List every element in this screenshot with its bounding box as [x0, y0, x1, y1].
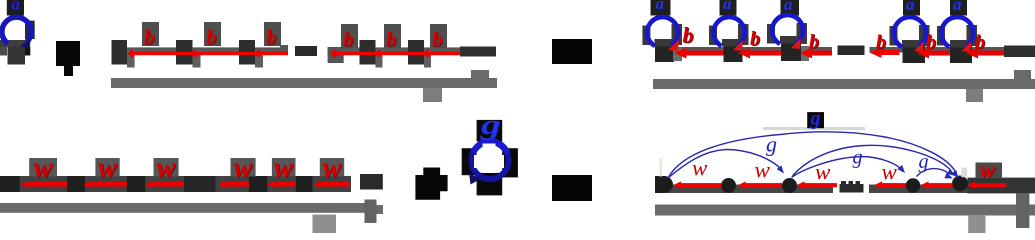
bracket tick left [660, 158, 662, 177]
arrow w6 [314, 181, 324, 188]
unit4 loop arrowhead [914, 41, 924, 52]
w halo 3 [154, 158, 179, 177]
label halo b2 [204, 22, 221, 46]
w halo right [976, 163, 1003, 178]
label halo b5 [384, 24, 401, 48]
node 4 [249, 176, 267, 192]
node 1 [655, 176, 673, 193]
top g label box [807, 112, 824, 128]
svg-text:g: g [919, 151, 929, 173]
svg-text:w: w [882, 160, 898, 185]
unit4 self-loop [894, 17, 926, 47]
node 2 [67, 176, 85, 192]
arrow into unit2 [738, 48, 750, 59]
label halo b4 [341, 24, 358, 48]
arc g node1 to node5 (big) [668, 132, 956, 178]
unit3 node [781, 42, 801, 61]
self-loop arrowhead [20, 39, 31, 49]
arrow into unit5 [966, 48, 978, 59]
node 1 [112, 40, 128, 65]
unit2 right halo [738, 24, 749, 45]
arrow w2 [738, 181, 746, 189]
svg-text:w: w [34, 153, 53, 184]
unit3 self-loop [772, 15, 803, 44]
arrow b4 [328, 47, 344, 63]
arrow into unit3 [800, 48, 812, 59]
unit4 left halo [890, 26, 898, 46]
node 4 [360, 40, 376, 65]
ellipsis blob [184, 176, 216, 192]
svg-text:a: a [906, 0, 915, 14]
right tail rect [967, 178, 1035, 194]
w halo 2 [95, 158, 119, 177]
arrow w2 [84, 181, 94, 188]
extent line bottom-left [0, 203, 372, 213]
unit4 node [903, 45, 926, 63]
g label halo block [477, 120, 503, 142]
arc g node3 to node5 [793, 145, 951, 176]
w halo 6 [320, 158, 344, 177]
svg-text:a: a [784, 0, 793, 14]
chain tail bar [460, 47, 496, 57]
extent line right [653, 79, 1035, 89]
node 3 [782, 178, 797, 193]
unit2 left halo [709, 26, 717, 46]
unit3 node fringe [801, 46, 809, 61]
svg-text:a: a [656, 0, 665, 13]
label halo of loop label a [7, 0, 24, 16]
unit1 loop arrowhead [668, 40, 679, 52]
chain bar segment left [655, 185, 833, 194]
node 5 fringe [424, 50, 431, 68]
unit5 node [950, 45, 972, 63]
left halo block [462, 148, 477, 175]
equals blob row 1 [552, 39, 592, 64]
svg-text:b: b [386, 27, 397, 51]
w halo 1 [29, 158, 57, 177]
unit1 node [655, 45, 674, 62]
unit2 label halo [720, 0, 737, 16]
ellipsis dots [840, 184, 864, 193]
node 1 [0, 176, 20, 192]
node 4 [906, 178, 920, 192]
chain band segment 2 [328, 47, 460, 55]
label halo b1 [142, 22, 159, 46]
svg-text:w: w [274, 153, 293, 184]
arrow w5 [268, 181, 278, 188]
unit5 left halo [937, 26, 945, 46]
arrow b5 [375, 49, 383, 58]
self-loop arrowhead [469, 173, 481, 185]
node q0 [8, 47, 26, 65]
node 5 [296, 176, 313, 192]
arc g node3 to node4 [792, 157, 903, 178]
right halo block [502, 148, 518, 177]
unit3 loop collar [780, 36, 797, 44]
node 4 fringe [376, 50, 383, 68]
unit3 right halo [797, 23, 808, 44]
unit5 loop arrowhead [962, 41, 972, 52]
arc g node4 to node5 [917, 169, 950, 177]
unit1 self-loop [647, 17, 678, 46]
extent arrow tip [377, 205, 384, 214]
ellipsis dash [295, 46, 317, 56]
extent line bottom-right [655, 205, 1035, 216]
self-loop arc [2, 17, 31, 43]
node 3 [127, 176, 145, 192]
svg-text:w: w [157, 153, 176, 184]
arrow w4 [219, 181, 229, 188]
chain band segment 2 [870, 47, 1005, 53]
right black block [24, 47, 30, 56]
arrow w3 [796, 181, 804, 189]
node block [477, 173, 503, 196]
unit4 label halo [903, 0, 920, 16]
unit1 left halo [642, 26, 650, 46]
plus operator blob [415, 168, 447, 200]
unit2 loop collar [722, 39, 739, 47]
unit3 loop arrowhead [791, 38, 801, 49]
arrow b2 [191, 49, 199, 58]
arrow into dash [870, 47, 882, 58]
arrow w4 [874, 181, 882, 189]
left lower block [0, 47, 7, 56]
unit5 loop collar [950, 40, 967, 48]
svg-text:b: b [876, 32, 886, 54]
svg-text:g: g [480, 110, 501, 141]
svg-text:b: b [432, 27, 443, 51]
unit2 loop arrowhead [733, 40, 743, 51]
node 1 fringe [127, 50, 135, 68]
w halo 4 [231, 158, 256, 177]
svg-text:b: b [750, 28, 760, 50]
arrow w6 [967, 181, 975, 189]
label halo b3 [264, 22, 281, 46]
arrow into unit4 [917, 48, 929, 59]
unit5 self-loop [941, 17, 973, 47]
svg-text:w: w [755, 158, 771, 183]
equals blob row 2 [552, 175, 592, 201]
extent arrowhead right [1014, 70, 1031, 79]
svg-text:b: b [343, 27, 354, 51]
svg-text:a: a [723, 0, 732, 13]
unit1 right halo [672, 24, 683, 45]
svg-text:w: w [980, 157, 996, 182]
unit4 right halo [919, 25, 930, 46]
band behind loop bottom [0, 40, 30, 47]
svg-text:b: b [683, 23, 694, 48]
arrow b3 [255, 49, 263, 58]
node 3 [239, 40, 255, 65]
bracket tick right [961, 168, 967, 178]
svg-text:b: b [206, 25, 217, 49]
node 5 [408, 40, 424, 65]
extent arrowhead cross [1016, 193, 1029, 228]
arrow w5 [920, 181, 928, 189]
unit1 loop collar [655, 39, 672, 47]
svg-text:g: g [810, 108, 821, 130]
node 3 fringe [255, 50, 263, 68]
svg-text:b: b [266, 25, 277, 49]
red shaft segment 1 [129, 52, 288, 55]
chain band segment 1 [126, 47, 288, 55]
chain band segment 1 [674, 47, 832, 53]
unit1 label halo [651, 0, 671, 16]
white plus inside loop [474, 155, 504, 168]
arrow w3 [145, 181, 155, 188]
unit4 loop collar [902, 40, 919, 48]
unit2 node [724, 45, 743, 62]
arrow b1 [128, 49, 136, 58]
svg-text:a: a [953, 0, 962, 14]
end node [360, 174, 383, 190]
unit2 self-loop [714, 17, 745, 46]
node 2 fringe [193, 50, 201, 68]
unit1 node fringe [673, 47, 682, 61]
arrow w1 [21, 181, 31, 188]
arc g node1 to node3 [668, 149, 781, 178]
arrow w1 [673, 181, 681, 189]
chain tail bar right [1004, 46, 1035, 58]
extent label block right [966, 89, 983, 102]
unit5 right halo [967, 25, 978, 46]
chain bar segment right [869, 185, 968, 194]
self-loop ring [472, 142, 509, 179]
arrow b6 [424, 49, 432, 58]
unit3 left halo [767, 24, 775, 44]
svg-text:g: g [766, 132, 777, 157]
tail gray block [280, 45, 288, 52]
svg-text:b: b [144, 25, 155, 49]
chain bar [0, 176, 351, 192]
extent arrowhead cross [365, 200, 377, 224]
svg-text:w: w [323, 153, 342, 184]
extent label block [968, 215, 985, 233]
arrow into unit1 [675, 48, 687, 59]
svg-text:w: w [98, 153, 117, 184]
w halo 5 [272, 158, 296, 177]
svg-text:w: w [234, 153, 253, 184]
label halo b6 [430, 24, 447, 48]
svg-text:g: g [853, 147, 863, 169]
extent arrowhead [471, 70, 489, 78]
operator blob (dot-like symbol) [56, 41, 80, 76]
extent label block [313, 215, 337, 233]
node 5 [952, 176, 968, 192]
node 2 [176, 40, 193, 65]
extent line [111, 78, 497, 88]
unit3 label halo [781, 0, 800, 16]
unit5 label halo [950, 0, 967, 16]
svg-text:a: a [12, 0, 21, 14]
extent label block [423, 88, 442, 102]
bracket line [763, 127, 865, 130]
node 2 [721, 178, 736, 193]
ellipsis dash [838, 46, 865, 56]
right halo block upper [25, 21, 35, 39]
red shaft segment 2 [332, 52, 460, 55]
